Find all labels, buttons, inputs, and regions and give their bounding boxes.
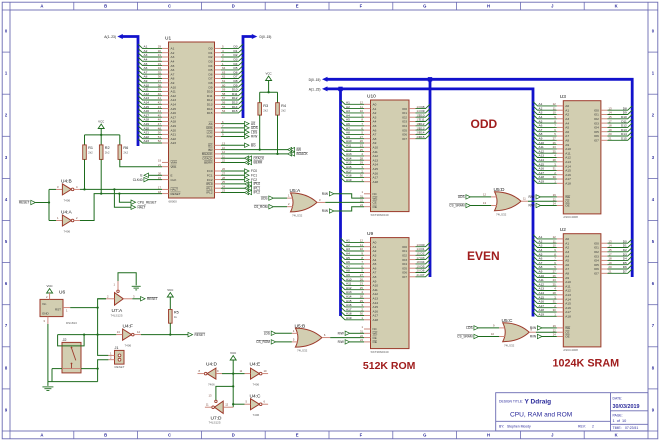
svg-text:D15: D15 [232,109,238,113]
U1 pins FC0-FC2 (26,27,28) to ports [215,170,222,172]
svg-text:07:23:51: 07:23:51 [625,426,638,430]
wire R6 bottom to U1 VPA [120,159,162,166]
svg-text:AS6C4008: AS6C4008 [563,215,578,219]
U1 pin RESET(18) [162,193,169,195]
svg-text:A19: A19 [346,316,352,320]
input port RESET (left edge) [31,200,36,204]
svg-text:2k2: 2k2 [105,151,110,155]
U6 pin 3 GND wire [47,317,49,324]
U1 pin R/W(9) to port R/W [215,136,222,138]
svg-text:D15: D15 [621,137,627,141]
svg-text:OE: OE [373,205,377,209]
svg-text:VCC: VCC [230,351,236,355]
svg-text:R/W: R/W [528,204,534,208]
input port LDS to U5:C pin 9 [474,326,479,330]
ground symbol right of U7:A [132,285,141,287]
svg-text:U1: U1 [165,36,171,42]
svg-text:F: F [360,433,363,438]
svg-text:7406: 7406 [64,198,71,202]
svg-text:512K ROM: 512K ROM [363,360,416,372]
svg-text:U6: U6 [59,290,65,296]
svg-text:CPU_RESET: CPU_RESET [138,200,157,204]
wire to output port HALT [114,189,131,207]
svg-text:1024K SRAM: 1024K SRAM [553,358,620,370]
header J1 RESET [115,350,125,364]
U2 data pins IO0-IO7 to RAM D bus (labels D0-D7) [594,239,632,276]
svg-text:UDS: UDS [458,195,465,199]
U1 pin BG(13) to port BG [215,144,222,146]
svg-text:OE: OE [565,335,569,339]
svg-text:2: 2 [592,425,594,429]
J2 bottom wire to ground net [52,368,62,370]
svg-text:R1: R1 [88,146,93,150]
svg-text:RESET: RESET [171,192,181,196]
svg-text:A: A [40,4,43,9]
switch J2 body [62,342,81,373]
VCC symbol above spare gates [230,356,236,361]
resistor R6 2k2 [118,145,122,160]
U7:D input pin 12 stub [223,406,233,408]
svg-text:Y Ddraig: Y Ddraig [525,398,552,405]
U7:D output pin 11 stub [205,406,212,408]
input port CS_SRAM to U5:C pin 10 [474,334,479,338]
svg-text:12: 12 [137,330,140,334]
svg-text:A18: A18 [565,182,571,186]
svg-text:R/W: R/W [207,135,213,139]
input port CS_SRAM to U5:D pin 13 [466,203,471,207]
svg-text:C: C [168,433,171,438]
svg-text:RESET: RESET [19,201,30,205]
svg-text:68000: 68000 [169,199,178,203]
port R/W to U10 WE [329,192,334,196]
svg-text:B: B [104,4,107,9]
svg-text:U3: U3 [560,94,566,100]
svg-text:7406: 7406 [253,413,260,417]
svg-text:R/W: R/W [530,326,536,330]
svg-text:ODD: ODD [471,117,498,131]
bus ROM data vertical [429,79,432,277]
svg-text:1k: 1k [174,315,178,319]
svg-text:VCC: VCC [98,120,104,124]
svg-text:CS_ROM: CS_ROM [254,205,268,209]
U6 DS1813 body [40,299,63,316]
wire to output port CPU_RESET [119,194,131,203]
U3 control pins WE/CE/OE [557,196,564,198]
wire R5 bottom to RESET net [169,323,171,334]
svg-text:74LS32: 74LS32 [297,349,308,353]
wire VCC to U4:D/U4:E inputs [222,373,245,375]
svg-text:7406: 7406 [64,229,71,233]
U1 pin E(20) to port E [162,174,169,176]
svg-text:BERR: BERR [254,161,264,165]
U5:C output pin 8 wire to U2 CE [529,331,536,333]
svg-text:22: 22 [360,199,363,203]
SRAM U2 AS6C4008 body [563,234,601,347]
svg-text:R4: R4 [281,104,286,108]
VCC symbol above U6 [47,289,53,294]
input port UDS to U5:A pin 1 [269,196,274,200]
svg-text:DESIGN TITLE:: DESIGN TITLE: [499,400,523,404]
VCC symbol above R1/R2/R6 [98,124,104,129]
svg-text:F: F [360,4,363,9]
U5:A output pin 3 wire to U10 CE [317,201,325,203]
U10 control pins NC/WE/CE/OE [364,193,371,195]
U1 pin UDS(7) to port UDS [215,127,222,129]
svg-text:BY:: BY: [499,425,504,429]
VCC symbol above R3/R4 [266,76,272,81]
svg-text:CS_SRAM: CS_SRAM [449,204,465,208]
svg-text:BERR: BERR [204,161,213,165]
U1 data pins D0-D15 (pins 5..54) with entries to D bus [207,44,243,115]
U6 pin 2 VCC stub [49,293,51,299]
wire VCC tie to U4:C input [233,403,244,405]
svg-text:12: 12 [225,403,228,407]
svg-text:U4:F: U4:F [123,324,133,330]
svg-text:21: 21 [608,270,612,274]
port R/W to U9 OE [345,340,350,344]
U3 address pins A0-A18 from RAM A bus (labels A1-A19) [533,102,571,186]
port R/W to U10 OE [329,209,334,213]
U10 address pins A0-A18 from ROM A bus (labels A1-A19) [341,100,379,184]
svg-text:R/W: R/W [528,195,534,199]
svg-text:RESET: RESET [115,365,125,369]
wire reset net row to J2 [58,334,98,336]
U1 pins IPL0-IPL2 (25,24,23) to ports [215,183,222,185]
svg-text:A18: A18 [373,180,379,184]
wire U4:B output to U1 HALT (net with R1 pullup) [80,188,162,190]
svg-text:D15: D15 [207,111,213,115]
svg-text:RESET: RESET [147,297,158,301]
wire VCC rail over R1 R2 R6 [85,134,120,136]
buffer U7:D 74LS125 (flipped) [214,401,223,413]
wire RESET port to U4 inputs [35,202,49,204]
svg-text:74LS32: 74LS32 [504,343,515,347]
svg-text:B: B [104,433,107,438]
svg-text:H: H [487,433,490,438]
bus D(0..15) horizontal to memory, turns down as RAM data bus [327,79,632,277]
svg-text:PAGE:: PAGE: [613,413,623,417]
resistor R1 2k2 [83,145,87,160]
wire loop around J2 top contact [58,335,85,346]
svg-text:2k2: 2k2 [88,151,93,155]
port R/W to U9 WE [345,331,350,335]
svg-text:G: G [423,4,426,9]
svg-text:IPL2: IPL2 [254,191,261,195]
svg-text:H: H [487,4,490,9]
ground symbol below U6 [47,382,49,386]
svg-text:A: A [40,433,43,438]
J1 pin 1 wire [108,354,114,356]
svg-text:K: K [615,433,618,438]
svg-text:U4:A: U4:A [61,209,72,215]
svg-text:21: 21 [417,273,421,277]
svg-text:EVEN: EVEN [467,249,500,263]
svg-text:D(0..15): D(0..15) [260,35,272,39]
wire VCC rail to R3 R4 tops [260,91,278,93]
resistor R2 2k2 [99,145,103,160]
svg-text:J1: J1 [115,346,119,350]
U1 pin BGACK(12), wire with pullup R4, to port BGACK [215,153,222,155]
ground return wire [48,381,98,383]
U6 pin 1 RST wire to U7:A input net [63,307,70,309]
svg-text:A19: A19 [346,178,352,182]
U1 pin VMA(19) stub [162,161,169,163]
U1 pin AS(6) to port AS [215,123,222,125]
svg-text:SST39SF040: SST39SF040 [371,350,389,354]
svg-text:R5: R5 [174,311,179,315]
svg-text:J2: J2 [63,338,67,342]
wire R4 bottom to BGACK net [277,115,279,154]
svg-text:G: G [423,433,426,438]
svg-text:A23: A23 [144,139,150,143]
J2 contacts [71,347,73,349]
svg-text:AS6C4008: AS6C4008 [563,348,578,352]
svg-text:E: E [296,433,299,438]
title block texts [499,396,639,430]
wire U4:A output to U1 RESET (net with R2 pullup) [80,194,162,221]
U2 address pins A0-A18 from RAM A bus (labels A1-A19) [533,235,571,319]
U2 control pins WE/CE/OE [557,327,564,329]
U1 pin LDS(8) to port LDS [215,131,222,133]
bus ROM address vertical [339,89,342,316]
U9 data pins IO0-IO7 to ROM D bus (labels D0-D7) [402,242,430,279]
svg-text:Stephen Moody: Stephen Moody [507,425,531,429]
svg-text:13: 13 [483,201,486,205]
wire R2 bottom to RESET net [100,159,102,193]
U1 address pins A1-A23 (pins 29-52) with entries to A bus [138,44,176,145]
svg-text:R/W: R/W [322,209,328,213]
svg-text:1 of 10: 1 of 10 [613,419,627,423]
svg-text:IO7: IO7 [594,272,599,276]
svg-text:54: 54 [222,109,226,113]
bus A(1..23) left of CPU U1 [122,37,138,147]
svg-text:VCC: VCC [167,288,173,292]
svg-text:R/W: R/W [338,340,344,344]
U4:F output pin 12 to port RESET [134,334,141,336]
port R/W to U2 OE [537,334,542,338]
svg-text:E: E [296,4,299,9]
svg-text:11: 11 [206,403,209,407]
svg-text:13: 13 [117,330,120,334]
svg-text:CLK40: CLK40 [133,178,143,182]
bus A(1..23) horizontal to memory, turns down as RAM address bus [327,89,533,317]
svg-text:C: C [168,4,171,9]
buffer U7:A 74LS125 [115,293,124,306]
svg-text:10: 10 [264,369,267,373]
svg-text:2k2: 2k2 [281,108,286,112]
svg-text:VCC: VCC [47,284,53,288]
port R/W to U2 WE [537,326,542,330]
svg-text:R3: R3 [263,104,268,108]
svg-text:21: 21 [417,135,421,139]
svg-text:74LS32: 74LS32 [292,214,303,218]
svg-text:CS_SRAM: CS_SRAM [457,335,473,339]
svg-text:K: K [615,4,618,9]
resistor R3 2k2 [258,103,262,115]
input port UDS to U5:D pin 12 [466,195,471,199]
svg-text:R/W: R/W [338,332,344,336]
U1 pin BR(10), wire with pullup R3, to port BR [215,149,222,151]
svg-text:D7: D7 [623,270,627,274]
U7:A input pin 2 [98,298,106,300]
svg-text:LDS: LDS [466,326,472,330]
svg-text:74LS125: 74LS125 [209,421,221,425]
svg-text:A19: A19 [539,313,545,317]
svg-text:7406: 7406 [125,344,132,348]
svg-text:REV:: REV: [578,425,586,429]
svg-text:CS_ROM: CS_ROM [256,340,270,344]
svg-text:74LS32: 74LS32 [496,212,507,216]
svg-text:DATE:: DATE: [613,396,623,400]
svg-text:RST: RST [55,307,61,311]
svg-text:A18: A18 [565,315,571,319]
svg-text:A(1..23): A(1..23) [104,35,116,39]
svg-text:21: 21 [608,137,612,141]
svg-text:A23: A23 [171,141,177,145]
svg-text:CPU, RAM and ROM: CPU, RAM and ROM [510,411,572,418]
U5:B output pin 6 wire to U9 CE [322,337,330,339]
port R/W to U3 WE [536,195,541,199]
U9 control pins NC/WE/CE/OE [364,328,371,330]
svg-text:U2: U2 [560,227,566,233]
U5:D output pin 11 wire to U3 CE [521,200,528,202]
svg-text:VCC: VCC [266,72,272,76]
svg-text:19: 19 [158,159,161,163]
ROM U10 SST39SF040 body [371,100,410,212]
svg-text:LDS: LDS [264,332,270,336]
svg-text:30/03/2019: 30/03/2019 [613,404,640,410]
wire R3 bottom to BR net [259,115,261,150]
svg-text:IO7: IO7 [594,139,599,143]
bus D(0..15) right of CPU U1 [243,37,252,119]
U10 data pins IO0-IO7 to ROM D bus (labels D8-D15) [402,104,430,141]
U1 pin BERR(22) to port BERR [215,162,222,164]
J1 pin 2 wire to ground [108,359,114,361]
SRAM U3 AS6C4008 body [563,101,601,214]
svg-text:A19: A19 [539,180,545,184]
svg-text:GND: GND [42,312,50,316]
svg-text:R/W: R/W [530,335,536,339]
CPU U1 68000 body [169,42,215,198]
svg-text:D: D [232,4,235,9]
U7:A output pin 3 to port RESET [123,298,132,300]
svg-text:VPA: VPA [171,165,177,169]
svg-text:D7: D7 [421,273,425,277]
svg-text:74LS125: 74LS125 [111,313,123,317]
svg-text:52: 52 [158,139,162,143]
title block [496,393,648,431]
U1 pin CLK(15) from port CLK40 [162,179,169,181]
wire R1 bottom to HALT net [84,159,86,189]
svg-text:R/W: R/W [251,135,257,139]
VCC symbol above R5 [167,293,173,298]
svg-text:D: D [232,433,235,438]
svg-text:HALT: HALT [138,206,146,210]
svg-text:SST39SF040: SST39SF040 [371,213,389,217]
svg-text:IO7: IO7 [402,275,407,279]
svg-text:Vin: Vin [42,302,47,306]
svg-text:22: 22 [553,328,556,332]
U3 data pins IO0-IO7 to RAM D bus (labels D8-D15) [594,106,632,143]
svg-text:2k2: 2k2 [123,151,128,155]
svg-text:RESET: RESET [195,333,206,337]
vertical VCC tie wire [232,374,234,408]
ROM U9 SST39SF040 body [371,238,410,349]
svg-text:D(0..15): D(0..15) [309,78,321,82]
svg-text:13: 13 [209,394,212,398]
svg-text:A18: A18 [373,318,379,322]
input port CS_ROM to U5:A pin 2 [269,205,274,209]
svg-text:R6: R6 [123,146,128,150]
svg-text:OE: OE [565,204,569,208]
svg-text:22: 22 [553,197,556,201]
U9 address pins A0-A18 from ROM A bus (labels A1-A19) [341,238,379,322]
svg-text:OE: OE [373,340,377,344]
vertical reset net wire (U7:A input / RST / U4:F input / J1 pin1) [98,299,109,356]
input port CS_ROM to U5:B pin 5 [271,340,276,344]
U1 pin DTACK(11) to port DTACK [215,157,222,159]
svg-text:U4:E: U4:E [250,361,261,367]
U1 pin VPA(21) wire from R6 [162,166,169,168]
U7:A enable pin 1 wire to ground [117,281,119,290]
svg-text:7406: 7406 [208,383,215,387]
port R/W to U3 OE [536,203,541,207]
svg-text:R2: R2 [105,146,110,150]
svg-text:UDS: UDS [261,196,268,200]
U1 pin HALT(17) [162,188,169,190]
wire to U7:D enable [216,386,233,400]
svg-text:CLK: CLK [171,178,177,182]
svg-text:TIME:: TIME: [613,426,622,430]
svg-text:IO7: IO7 [402,137,407,141]
input port LDS to U5:B pin 4 [271,331,276,335]
svg-text:U9: U9 [367,231,373,237]
svg-text:DS1813: DS1813 [66,321,77,325]
svg-text:10: 10 [491,332,494,336]
svg-text:BG: BG [251,144,256,148]
svg-text:U4:D: U4:D [206,361,217,367]
svg-text:7406: 7406 [253,383,260,387]
svg-text:U4:B: U4:B [61,178,72,184]
resistor R5 1k [169,310,173,324]
svg-text:IPL2: IPL2 [206,191,213,195]
U4:F input pin 13 wire [98,334,117,336]
svg-text:A(1..23): A(1..23) [309,88,321,92]
resistor R4 2k2 [276,103,280,115]
svg-text:R/W: R/W [322,192,328,196]
svg-text:BGACK: BGACK [297,152,309,156]
svg-text:12: 12 [483,192,486,196]
svg-text:2k2: 2k2 [263,108,268,112]
svg-text:U10: U10 [367,94,376,100]
